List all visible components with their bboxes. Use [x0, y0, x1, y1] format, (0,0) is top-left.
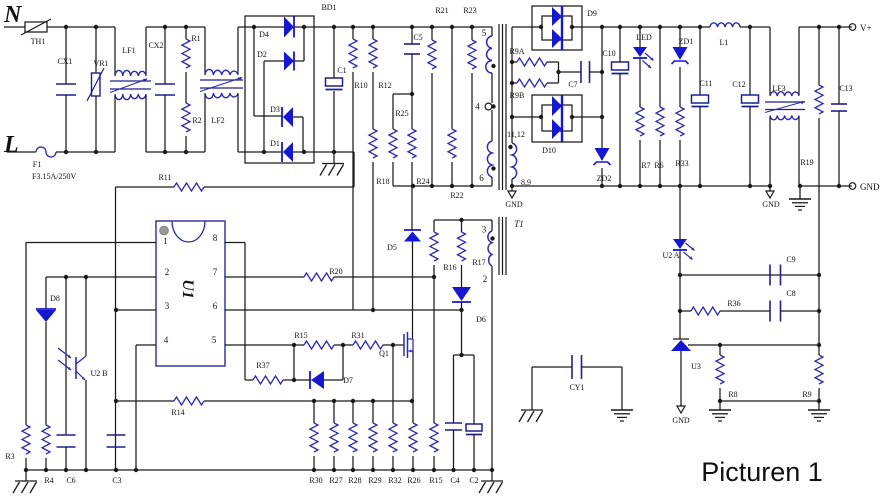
svg-text:ZD2: ZD2	[597, 174, 612, 183]
svg-text:C11: C11	[699, 79, 712, 88]
svg-text:D7: D7	[343, 376, 353, 385]
svg-text:LF3: LF3	[772, 84, 785, 93]
svg-text:8: 8	[213, 233, 218, 243]
svg-text:R8: R8	[728, 390, 737, 399]
svg-text:C13: C13	[839, 84, 852, 93]
svg-text:CY1: CY1	[569, 383, 584, 392]
svg-text:R3: R3	[5, 452, 14, 461]
svg-text:R24: R24	[416, 177, 429, 186]
svg-text:R25: R25	[395, 109, 408, 118]
svg-text:Picturen 1: Picturen 1	[701, 457, 823, 487]
svg-text:LED: LED	[636, 33, 652, 42]
svg-text:C3: C3	[112, 476, 121, 485]
svg-text:GND: GND	[505, 200, 523, 209]
svg-text:R12: R12	[378, 81, 391, 90]
svg-text:4: 4	[475, 102, 480, 112]
svg-text:C8: C8	[786, 289, 795, 298]
svg-text:R36: R36	[727, 299, 740, 308]
svg-text:D2: D2	[257, 50, 267, 59]
svg-text:GND: GND	[672, 416, 690, 425]
svg-text:R28: R28	[348, 476, 361, 485]
svg-text:C4: C4	[450, 476, 459, 485]
svg-text:R21: R21	[435, 6, 448, 15]
svg-text:Q1: Q1	[379, 349, 389, 358]
svg-text:R32: R32	[388, 476, 401, 485]
svg-text:R37: R37	[256, 361, 269, 370]
svg-text:U1: U1	[179, 279, 196, 299]
svg-text:D4: D4	[259, 30, 269, 39]
svg-text:C7: C7	[568, 80, 577, 89]
svg-text:GND: GND	[762, 200, 780, 209]
svg-text:R9: R9	[802, 390, 811, 399]
svg-text:U3: U3	[691, 362, 701, 371]
svg-text:D9: D9	[587, 9, 597, 18]
svg-text:R30: R30	[309, 476, 322, 485]
svg-text:R6: R6	[654, 161, 663, 170]
svg-text:C1: C1	[337, 66, 346, 75]
svg-text:U2 B: U2 B	[90, 369, 107, 378]
svg-text:R2: R2	[192, 116, 201, 125]
svg-text:R4: R4	[44, 476, 53, 485]
svg-text:R15: R15	[429, 476, 442, 485]
svg-text:5: 5	[482, 28, 487, 38]
svg-text:R20: R20	[329, 267, 342, 276]
svg-text:D10: D10	[542, 146, 556, 155]
svg-text:R22: R22	[450, 191, 463, 200]
svg-text:D5: D5	[387, 243, 397, 252]
svg-text:D6: D6	[476, 315, 486, 324]
svg-text:R26: R26	[407, 476, 420, 485]
svg-text:F1: F1	[33, 160, 41, 169]
svg-text:4: 4	[164, 335, 169, 345]
svg-text:GND: GND	[860, 182, 880, 192]
svg-text:R11: R11	[158, 173, 171, 182]
svg-text:R33: R33	[675, 159, 688, 168]
svg-text:7: 7	[213, 267, 218, 277]
svg-text:2: 2	[483, 274, 488, 284]
svg-text:N: N	[3, 2, 23, 28]
svg-text:U2 A: U2 A	[662, 251, 679, 260]
svg-text:R27: R27	[329, 476, 342, 485]
svg-text:TH1: TH1	[31, 37, 46, 46]
svg-text:R7: R7	[641, 161, 650, 170]
svg-text:5: 5	[212, 335, 217, 345]
svg-text:6: 6	[479, 173, 484, 183]
svg-text:C9: C9	[786, 255, 795, 264]
svg-text:1: 1	[163, 236, 168, 246]
svg-text:R19: R19	[800, 158, 813, 167]
svg-text:C12: C12	[732, 80, 745, 89]
svg-text:D3: D3	[270, 105, 280, 114]
svg-text:R16: R16	[443, 263, 456, 272]
svg-text:D8: D8	[50, 294, 60, 303]
svg-text:11,12: 11,12	[507, 130, 525, 139]
svg-text:R10: R10	[354, 81, 367, 90]
svg-text:R1: R1	[191, 34, 200, 43]
svg-text:R29: R29	[368, 476, 381, 485]
svg-text:R9A: R9A	[509, 47, 524, 56]
svg-text:R15: R15	[294, 331, 307, 340]
svg-text:VR1: VR1	[93, 59, 108, 68]
svg-text:L: L	[3, 132, 19, 158]
svg-text:2: 2	[165, 267, 170, 277]
svg-text:ZD1: ZD1	[679, 37, 694, 46]
svg-text:LF1: LF1	[122, 46, 135, 55]
svg-text:3: 3	[165, 301, 170, 311]
svg-text:D1: D1	[270, 139, 280, 148]
svg-text:8,9: 8,9	[521, 178, 531, 187]
svg-text:L1: L1	[720, 38, 729, 47]
svg-text:C10: C10	[602, 49, 615, 58]
svg-text:R9B: R9B	[510, 91, 525, 100]
svg-text:R14: R14	[171, 408, 184, 417]
svg-text:3: 3	[482, 225, 487, 235]
svg-text:BD1: BD1	[321, 3, 336, 12]
svg-text:V+: V+	[860, 23, 872, 33]
svg-text:R23: R23	[463, 6, 476, 15]
svg-text:C5: C5	[413, 33, 422, 42]
svg-text:CX1: CX1	[57, 57, 72, 66]
svg-text:C2: C2	[469, 476, 478, 485]
svg-text:CX2: CX2	[148, 41, 163, 50]
svg-text:LF2: LF2	[211, 116, 224, 125]
svg-text:C6: C6	[66, 476, 75, 485]
svg-text:T1: T1	[514, 219, 524, 229]
svg-text:R18: R18	[376, 177, 389, 186]
svg-text:F3.15A/250V: F3.15A/250V	[32, 172, 76, 181]
svg-text:R17: R17	[472, 258, 485, 267]
svg-text:6: 6	[213, 301, 218, 311]
svg-text:R31: R31	[351, 331, 364, 340]
